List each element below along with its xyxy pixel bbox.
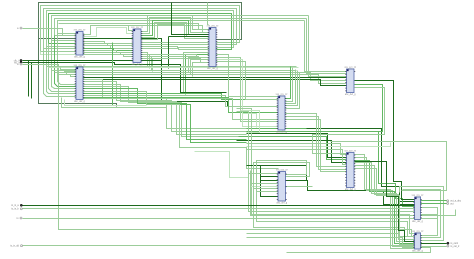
wire ic5 up 0 <box>285 67 291 99</box>
wire mid h5 <box>58 75 347 84</box>
wire bus3 top <box>47 11 234 48</box>
wire ic8 dark <box>355 162 415 242</box>
wire v245 <box>217 62 279 100</box>
wire ic7 enc4 <box>286 186 313 188</box>
wire bus dark branch ic1 <box>39 38 77 40</box>
svg-text:io_in_b: io_in_b <box>11 209 19 211</box>
wire out1 <box>421 200 447 202</box>
wire ic7 inl 4 <box>251 186 279 188</box>
wire bigrect <box>331 142 447 191</box>
port in4 <box>10 245 22 248</box>
svg-text:xxx_yyy_zz: xxx_yyy_zz <box>344 67 357 69</box>
svg-text:abc_def_g: abc_def_g <box>207 68 218 70</box>
wire top h23 <box>59 24 209 30</box>
wire bus4 top <box>49 14 232 50</box>
wire bus5 right <box>309 16 347 77</box>
wire ic2 fan 3 <box>49 44 77 92</box>
svg-text:xxx_yyy_zz: xxx_yyy_zz <box>412 231 425 233</box>
wire ic3-ic4 mid 2 <box>141 47 209 48</box>
wire enc ring2 <box>243 114 257 128</box>
wire v242 <box>217 60 279 127</box>
wire v171 dark <box>172 3 209 35</box>
wire ic1 r1b <box>129 26 133 31</box>
wire bus1 top <box>41 6 240 52</box>
svg-text:io_out1: io_out1 <box>451 242 459 245</box>
wire ic2 in t3 <box>71 75 77 77</box>
wire ic3-ic4 up 0 <box>141 16 209 32</box>
IC U2 <box>74 65 87 103</box>
wire ic7 encd <box>247 166 279 197</box>
wire ic3-ic4 mid 0 <box>141 42 209 44</box>
wire ic9 out r1 <box>421 215 438 236</box>
wire v168 dark <box>169 36 209 38</box>
wire enc ring1 <box>241 111 260 133</box>
wire ic1 r1 <box>83 26 209 35</box>
wire p8 net <box>23 245 415 247</box>
wire ic4 low 1 <box>186 55 209 95</box>
wire ic8 out 1 <box>355 158 415 247</box>
wire rst ext <box>169 65 227 93</box>
wire en <box>23 65 415 237</box>
wire v228 <box>217 55 279 97</box>
wire ic5 dn 0 <box>285 114 347 167</box>
wire ic3-ic4 mid 1 <box>141 44 209 46</box>
wire ic1 dark <box>83 39 279 107</box>
wire ic1-ic3 3 <box>83 49 133 51</box>
wire bot b <box>247 234 415 245</box>
wire b1 <box>247 128 307 130</box>
svg-text:abc_def_g: abc_def_g <box>345 189 356 191</box>
wire ic7 enc2 <box>257 161 415 237</box>
wire mid h4 <box>55 73 347 81</box>
svg-text:abc_def_g: abc_def_g <box>412 221 423 223</box>
IC U8 <box>344 151 357 191</box>
svg-text:xxx_yyy_zz: xxx_yyy_zz <box>276 170 289 172</box>
wire bus8 <box>41 52 77 55</box>
wire ic8 out 5 <box>355 169 415 237</box>
port in2 <box>11 208 22 211</box>
wire ic6 out <box>355 81 415 200</box>
IC U3 <box>131 27 144 66</box>
wire ic5 dn 1 <box>285 117 347 170</box>
svg-text:abc_def_g: abc_def_g <box>276 131 287 133</box>
wire ic3 dn 2 <box>141 57 152 71</box>
wire v112 <box>112 43 114 106</box>
wire b8 <box>247 150 347 165</box>
wire bus7 top <box>58 21 305 34</box>
wire ic2 low 1 <box>83 96 279 107</box>
wire dkp1 <box>83 77 347 79</box>
wire ic2 fan 5 <box>44 49 77 97</box>
IC U9 <box>412 195 425 223</box>
wire ic4 low 3 <box>191 60 209 75</box>
IC U1 <box>74 30 87 59</box>
wire ic7 inl 2 <box>254 188 279 190</box>
wire bus2 top <box>44 9 237 49</box>
wire ic1-ic3 0 <box>83 42 133 44</box>
svg-text:abc_def_g: abc_def_g <box>412 250 423 252</box>
wire rst drop2 <box>31 63 33 99</box>
wire bot c <box>247 238 415 248</box>
wire ic7 inl 0 <box>249 173 279 175</box>
wire ic2 in t2 <box>67 73 77 75</box>
wire out2 <box>421 203 447 205</box>
wire ic1-ic3 1 <box>83 44 133 46</box>
wire ic3-ic4 low 1 <box>141 57 209 60</box>
IC U5 <box>276 94 289 133</box>
wire portA <box>23 29 77 36</box>
wire out3 <box>421 243 447 245</box>
wire ic2 in t4 <box>61 68 77 70</box>
wire ic7 out <box>286 181 415 205</box>
svg-text:io_in_dd: io_in_dd <box>10 246 19 248</box>
svg-text:abc_def_g: abc_def_g <box>74 56 85 58</box>
svg-text:xxx_yyy_zz: xxx_yyy_zz <box>74 30 87 32</box>
wire ic1-ic3 6 <box>83 55 133 57</box>
wire ic5 up 4 <box>285 73 300 109</box>
wire bot a <box>287 248 431 253</box>
wire ic2 up 0 <box>83 80 247 129</box>
port en <box>17 63 22 66</box>
wire ic5 up 1 <box>285 68 293 102</box>
port rst <box>14 61 22 64</box>
wire ic2 up 5 <box>83 92 247 143</box>
port out3 <box>447 242 459 245</box>
wire v168b dark <box>168 37 170 69</box>
wire enc outer <box>237 112 415 212</box>
IC U6 <box>344 67 357 96</box>
svg-text:abc_def_g: abc_def_g <box>345 94 356 96</box>
wire ic5 up 3 <box>285 71 298 106</box>
wire b5 <box>237 141 347 163</box>
wire ic2 up 1 <box>83 82 247 132</box>
wire b3 <box>247 134 347 158</box>
wire ic8 out 3 <box>355 163 415 242</box>
wire v240 <box>217 58 279 122</box>
wire b4 <box>239 137 347 160</box>
wire ic6 o3 <box>313 88 385 154</box>
wire ic3 dn 1 <box>141 55 150 69</box>
wire ic4 low 2 <box>189 58 209 73</box>
svg-text:xxx_yyy_zz: xxx_yyy_zz <box>276 94 289 96</box>
wire bus6 top <box>55 19 307 36</box>
port a <box>17 27 22 30</box>
wire ic2 wrap1 <box>62 98 167 108</box>
wire ic5 enc <box>237 109 415 234</box>
wire mid h1 <box>47 66 297 68</box>
wire b2 <box>247 132 415 207</box>
wire ic3 dn 0 <box>141 53 148 67</box>
wire ic2 up 3 <box>83 87 247 137</box>
wire b7 <box>247 143 391 147</box>
svg-text:abc_def_g: abc_def_g <box>276 202 287 204</box>
wire p7 net <box>23 208 438 219</box>
svg-text:xxx_yyy_zz: xxx_yyy_zz <box>207 26 220 28</box>
wire ic3 dn 3 <box>141 59 153 72</box>
svg-text:abc_def_g: abc_def_g <box>74 101 85 103</box>
wire to ic8 t1 <box>307 129 415 202</box>
wire out4 <box>421 246 447 248</box>
wire ic4 low 4 <box>193 63 209 77</box>
wire ic1-ic3 5 <box>83 53 133 55</box>
wire bus dark wrap <box>39 3 242 107</box>
port out2 <box>447 202 454 205</box>
wire ic6 o2 <box>311 85 383 132</box>
wire mid h2 <box>49 67 299 69</box>
port in1 <box>11 204 22 207</box>
svg-text:io_out_2: io_out_2 <box>451 245 461 248</box>
wire ic3-ic4 up 1 <box>141 18 209 34</box>
IC U10 <box>412 231 425 252</box>
wire ic2 fan 0 <box>58 34 77 85</box>
wire ic2 v146 <box>83 92 279 169</box>
wire ic3-ic4 mid 3 <box>141 49 209 50</box>
wire ic7 inl 3 <box>257 191 279 193</box>
wire ic7 b1 <box>251 171 456 216</box>
wire mid h3 <box>52 70 297 72</box>
wire clk drop1 <box>28 61 30 97</box>
svg-text:xxx_yyy_zz: xxx_yyy_zz <box>344 151 357 153</box>
wire ic3-ic4 up 2 <box>141 21 209 36</box>
wire ic3-ic4 low 0 <box>141 55 209 58</box>
wire p5 net <box>23 205 415 207</box>
wire ic1 r2 <box>83 28 133 37</box>
wire bus5 top <box>52 16 309 41</box>
wire ic7 ind1 <box>261 176 279 178</box>
wire ic7 ind2 <box>261 180 279 182</box>
port clk <box>14 59 22 62</box>
wire b6 <box>247 144 347 155</box>
IC U4 <box>207 26 220 70</box>
wire ic7 encd top <box>261 166 307 181</box>
wire bus7 right <box>305 21 347 72</box>
svg-text:io_in_a: io_in_a <box>11 205 19 207</box>
svg-text:out_a_abc: out_a_abc <box>450 200 462 203</box>
wire ic2 up 4 <box>83 89 247 140</box>
wire ic3-ic4 up 3 <box>141 23 209 38</box>
wire dkp2 <box>83 80 347 86</box>
wire rst <box>23 63 169 65</box>
port out1 <box>447 200 462 203</box>
wire ic5 dn 2 <box>285 120 347 172</box>
svg-text:xxx_yyy_zz: xxx_yyy_zz <box>74 65 87 67</box>
wire ic8 out 0 <box>355 155 415 249</box>
wire ic1-ic3 4 <box>83 51 133 53</box>
wire v207 <box>208 3 209 25</box>
svg-text:xxx_yyy_zz: xxx_yyy_zz <box>131 27 144 29</box>
wire ic2 low 0 <box>83 94 279 100</box>
wire ic9 wrap2 <box>403 190 441 238</box>
svg-text:xxx_yyy_zz: xxx_yyy_zz <box>412 195 425 197</box>
wire p6 net <box>23 208 415 210</box>
wire ic2 low 3 <box>83 99 279 120</box>
wire ic1-ic3 2 <box>83 46 133 49</box>
wire clk <box>23 60 162 62</box>
wire ic9 wrap1 <box>400 187 444 241</box>
IC U7 <box>276 170 289 205</box>
port in3 <box>17 217 22 220</box>
wire ic5 up 2 <box>285 70 296 104</box>
wire ic2 in t1 <box>65 71 77 72</box>
wire enc left <box>195 152 249 178</box>
port out4 <box>447 245 460 248</box>
wire ic7 enc3 <box>254 163 415 240</box>
wire ic3-ic4 low 2 <box>141 59 209 63</box>
wire ic2 fan 2 <box>52 41 77 89</box>
svg-text:abc_def_g: abc_def_g <box>132 64 143 66</box>
wire bus6 right <box>307 19 347 74</box>
wire ic2 fan 4 <box>47 47 77 94</box>
wire ic3-ic4 up 4 <box>141 25 209 40</box>
wire ic2 up 2 <box>83 85 247 135</box>
wire ic2 low 2 <box>83 98 279 113</box>
wire ic2 wrap2 <box>65 100 147 106</box>
wire ic2 fan 1 <box>55 36 77 87</box>
wire ic8 out 2 <box>355 161 415 244</box>
svg-text:out: out <box>450 202 454 205</box>
wire ic4 low 0 <box>184 53 209 93</box>
wire ic7 inl 1 <box>252 183 279 185</box>
wire ic8 out 4 <box>355 166 415 240</box>
